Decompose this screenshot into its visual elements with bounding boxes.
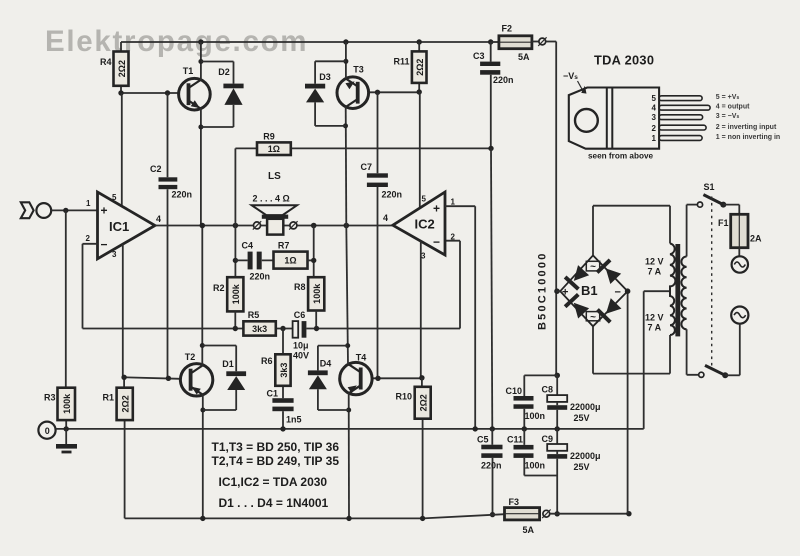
svg-text:~: ~	[590, 312, 596, 323]
fuse F1	[718, 205, 762, 248]
svg-text:T1: T1	[183, 66, 194, 76]
wire centre tap	[644, 291, 670, 429]
svg-text:~: ~	[590, 262, 596, 273]
transistor T3	[337, 65, 369, 109]
svg-text:220n: 220n	[250, 272, 271, 282]
wire IC1 pin3 column	[122, 244, 124, 377]
svg-text:R5: R5	[248, 310, 260, 320]
svg-text:R7: R7	[278, 241, 290, 251]
resistor R10	[395, 378, 430, 519]
svg-text:1: 1	[652, 134, 657, 143]
junction top rail at C3/F2	[488, 39, 493, 44]
label B50C10000	[537, 251, 549, 330]
label -Vs	[563, 71, 587, 94]
capacitor C9	[542, 429, 601, 476]
svg-text:−Vs: −Vs	[563, 71, 578, 81]
svg-text:4: 4	[652, 104, 657, 113]
svg-text:2Ω2: 2Ω2	[415, 59, 425, 76]
svg-text:R3: R3	[44, 393, 56, 403]
svg-text:5 = +Vs: 5 = +Vs	[716, 94, 740, 101]
svg-text:R1: R1	[102, 393, 114, 403]
fuse F2	[491, 24, 532, 63]
wire T1 collector column	[198, 42, 203, 80]
svg-text:2 = inverting input: 2 = inverting input	[716, 124, 777, 131]
resistor R5	[233, 310, 293, 336]
resistor R7	[274, 241, 314, 269]
wire -V sub rail	[524, 476, 560, 517]
transistor T1	[179, 66, 211, 111]
svg-text:1Ω: 1Ω	[268, 144, 280, 154]
wire T4 emitter column	[346, 393, 351, 518]
svg-text:−: −	[101, 238, 108, 252]
svg-text:5: 5	[652, 94, 657, 103]
resistor R1	[102, 377, 132, 518]
wire input to IC1 pin1	[51, 208, 97, 213]
svg-text:B1: B1	[581, 283, 598, 298]
TDA2030 pin legend	[716, 94, 780, 141]
svg-text:C2: C2	[150, 164, 162, 174]
svg-text:F2: F2	[502, 24, 513, 34]
svg-text:D4: D4	[320, 359, 332, 369]
TDA2030 pin 2 lead	[659, 125, 706, 130]
resistor R8	[294, 277, 324, 328]
svg-text:B50C10000: B50C10000	[537, 251, 549, 330]
diode D4	[308, 346, 349, 410]
svg-text:100k: 100k	[312, 283, 322, 304]
svg-text:2 . . . 4 Ω: 2 . . . 4 Ω	[253, 194, 290, 204]
svg-text:2: 2	[652, 124, 657, 133]
resistor R11	[393, 42, 426, 92]
TDA2030 pin 3 lead	[659, 115, 703, 120]
transformer secondary winding	[645, 206, 675, 374]
wire T3 collector column	[343, 42, 348, 79]
capacitor C8	[542, 375, 601, 431]
svg-text:T2: T2	[185, 352, 196, 362]
svg-text:3 = −Vs: 3 = −Vs	[716, 113, 740, 120]
wire T4 collector column	[345, 226, 350, 365]
svg-text:2Ω2: 2Ω2	[120, 395, 130, 412]
svg-text:−: −	[615, 287, 621, 299]
wire IC1 output rail	[155, 223, 393, 229]
svg-text:7 A: 7 A	[648, 267, 662, 277]
svg-text:IC2: IC2	[415, 217, 435, 232]
TDA2030 pin 5 lead	[659, 96, 702, 101]
svg-text:C9: C9	[542, 434, 554, 444]
svg-text:4: 4	[383, 213, 388, 223]
input jack	[21, 202, 51, 218]
wire T3 emitter column	[343, 107, 348, 226]
svg-text:2Ω2: 2Ω2	[418, 394, 428, 411]
svg-text:R11: R11	[393, 57, 409, 67]
svg-text:R6: R6	[261, 356, 273, 366]
wire +V sub rail	[524, 375, 557, 396]
svg-text:IC1,IC2 = TDA 2030: IC1,IC2 = TDA 2030	[219, 475, 328, 489]
svg-text:C10: C10	[506, 386, 523, 396]
svg-text:D1: D1	[222, 359, 234, 369]
svg-text:C4: C4	[242, 241, 254, 251]
svg-text:TDA 2030: TDA 2030	[594, 53, 654, 68]
diode D1	[202, 346, 246, 411]
diode D2	[201, 62, 244, 128]
svg-text:10μ: 10μ	[293, 341, 309, 351]
svg-text:C8: C8	[542, 385, 554, 395]
svg-text:100n: 100n	[525, 411, 546, 421]
svg-text:3k3: 3k3	[252, 324, 267, 334]
capacitor C6	[293, 241, 460, 361]
capacitor C5	[477, 429, 503, 517]
ground	[56, 429, 77, 454]
svg-text:T1,T3 = BD 250, TIP 36: T1,T3 = BD 250, TIP 36	[212, 440, 340, 454]
svg-text:T4: T4	[356, 353, 367, 363]
svg-text:+: +	[433, 202, 440, 216]
svg-text:2Ω2: 2Ω2	[117, 60, 127, 77]
loudspeaker LS	[252, 171, 298, 235]
svg-text:C1: C1	[266, 389, 278, 399]
wire T2 collector column	[200, 226, 205, 366]
capacitor C4	[235, 241, 273, 282]
svg-text:C6: C6	[294, 310, 306, 320]
wire B1 AC top	[593, 206, 670, 256]
svg-text:+: +	[101, 204, 108, 218]
svg-text:5A: 5A	[523, 525, 535, 535]
wire IC1 pin5 feed	[121, 93, 123, 206]
svg-text:R8: R8	[294, 282, 306, 292]
svg-text:100k: 100k	[62, 393, 72, 414]
wire T2 base rail	[121, 375, 180, 381]
svg-text:T3: T3	[353, 65, 364, 75]
svg-text:220n: 220n	[172, 190, 193, 200]
svg-text:+: +	[562, 287, 568, 299]
svg-text:12 V: 12 V	[645, 257, 664, 267]
svg-text:4 = output: 4 = output	[716, 104, 750, 111]
svg-text:12 V: 12 V	[645, 313, 664, 323]
svg-text:220n: 220n	[382, 190, 403, 200]
svg-text:C5: C5	[477, 435, 489, 445]
svg-text:1Ω: 1Ω	[284, 256, 296, 266]
svg-text:4: 4	[156, 214, 161, 224]
svg-text:2A: 2A	[750, 234, 762, 244]
wire C3 column to 0V	[490, 148, 495, 431]
svg-text:C3: C3	[473, 51, 485, 61]
svg-text:100k: 100k	[231, 283, 241, 304]
resistor R6	[261, 329, 291, 399]
svg-text:3: 3	[112, 250, 117, 259]
transformer primary winding	[681, 205, 698, 375]
svg-text:F3: F3	[509, 497, 520, 507]
svg-text:R9: R9	[263, 132, 275, 142]
svg-text:220n: 220n	[493, 75, 514, 85]
switch linkage dashed	[711, 197, 713, 368]
svg-text:LS: LS	[268, 171, 281, 182]
transistor T2	[180, 352, 212, 396]
capacitor C3	[473, 42, 514, 148]
wire T4 base rail	[372, 375, 424, 381]
svg-text:IC1: IC1	[109, 219, 129, 234]
switch S1 top pole	[687, 182, 740, 208]
capacitor C1	[266, 389, 301, 432]
svg-text:40V: 40V	[293, 351, 309, 361]
wire IC1 pin2 feedback	[83, 244, 236, 329]
svg-text:T2,T4 = BD 249, TIP 35: T2,T4 = BD 249, TIP 35	[212, 454, 340, 468]
wire B1 AC bottom	[593, 326, 670, 373]
svg-text:1 = non inverting in: 1 = non inverting in	[716, 134, 780, 141]
resistor R9	[235, 132, 491, 226]
svg-text:C11: C11	[507, 435, 523, 445]
terminal 0	[38, 422, 55, 439]
svg-text:5A: 5A	[518, 52, 530, 62]
svg-text:C7: C7	[361, 162, 373, 172]
svg-text:3: 3	[652, 113, 657, 122]
TDA2030 package title	[594, 53, 654, 68]
svg-text:D3: D3	[319, 72, 331, 82]
svg-text:R10: R10	[395, 392, 412, 402]
AC source bottom	[731, 307, 748, 376]
wire IC2 pin1 column	[445, 206, 478, 431]
svg-text:D2: D2	[218, 67, 230, 77]
TDA2030 pin 1 lead	[659, 136, 702, 141]
wire T1 base rail	[118, 90, 178, 95]
TDA2030 pin 4 lead	[659, 105, 710, 110]
wire IC2 pin5 feed	[419, 92, 421, 208]
diode D3	[305, 61, 346, 126]
wire -V rail left	[125, 514, 505, 521]
svg-text:5: 5	[112, 193, 117, 202]
wire node X column	[233, 226, 238, 278]
wire T3 base rail	[368, 89, 422, 95]
capacitor C7	[361, 92, 403, 378]
svg-text:D1 . . . D4 = 1N4001: D1 . . . D4 = 1N4001	[219, 496, 329, 510]
wire IC2 pin3 column	[420, 241, 422, 378]
wire B1 minus column	[625, 288, 631, 513]
capacitor C10	[506, 386, 546, 432]
capacitor C11	[507, 429, 545, 476]
label seen from above	[588, 152, 654, 161]
svg-text:7 A: 7 A	[648, 323, 662, 333]
svg-text:3: 3	[421, 252, 426, 261]
svg-text:S1: S1	[704, 182, 715, 192]
op-amp IC2	[383, 192, 456, 261]
junction top rail at T1 collector	[198, 39, 203, 44]
junction C3 / R9 rail	[488, 146, 493, 151]
bridge rectifier B1	[560, 255, 627, 326]
junction top rail at R11	[417, 39, 422, 44]
svg-text:F1: F1	[718, 218, 729, 228]
svg-text:R2: R2	[213, 283, 225, 293]
capacitor C2	[150, 93, 192, 378]
wire 0V rail	[56, 426, 644, 431]
transformer core	[675, 244, 680, 336]
wire B1 plus stub	[556, 290, 560, 292]
resistor R4	[100, 42, 129, 93]
resistor R3	[44, 210, 75, 428]
svg-text:220n: 220n	[481, 461, 502, 471]
svg-text:25V: 25V	[574, 413, 590, 423]
svg-text:1: 1	[451, 198, 456, 207]
svg-text:−: −	[433, 235, 440, 249]
svg-text:2: 2	[451, 233, 456, 242]
wire node Y column	[311, 226, 316, 278]
op-amp IC1	[86, 192, 162, 259]
svg-text:0: 0	[45, 426, 50, 436]
transistor T4	[340, 353, 372, 395]
parts list text block	[212, 440, 340, 510]
wire T1 emitter column	[198, 108, 203, 226]
connector after F2	[532, 37, 556, 46]
svg-text:100n: 100n	[525, 461, 546, 471]
svg-text:5: 5	[422, 195, 427, 204]
wire +V column	[554, 42, 560, 379]
junction top rail at T3 collector	[343, 39, 348, 44]
fuse F3	[505, 497, 540, 535]
svg-text:25V: 25V	[574, 462, 590, 472]
svg-text:seen from above: seen from above	[588, 152, 654, 161]
svg-text:2: 2	[86, 234, 91, 243]
svg-text:22000μ: 22000μ	[570, 402, 601, 412]
TDA2030 package body	[569, 88, 659, 149]
resistor R2	[213, 277, 243, 328]
watermark Elektropage.com	[45, 25, 308, 58]
svg-text:1n5: 1n5	[286, 415, 302, 425]
svg-text:R4: R4	[100, 57, 112, 67]
svg-text:22000μ: 22000μ	[570, 451, 601, 461]
svg-text:1: 1	[86, 199, 91, 208]
AC source top	[732, 248, 748, 273]
wire T2 emitter column	[200, 395, 205, 519]
switch S1 bottom pole	[699, 365, 740, 378]
svg-text:3k3: 3k3	[279, 363, 289, 378]
connector after F3	[542, 510, 631, 519]
wire +V top rail	[121, 41, 491, 43]
